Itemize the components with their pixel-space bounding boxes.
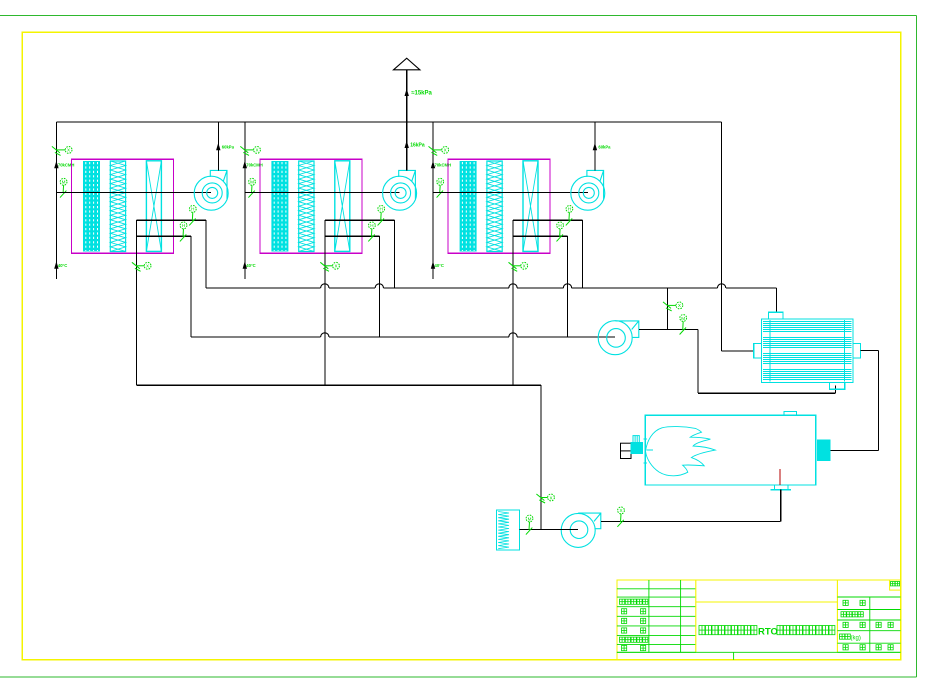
svg-text:M: M	[681, 316, 685, 321]
wire unit 2 lower-right drop to manifold B	[378, 236, 380, 337]
unit 3 pre-filter element	[460, 161, 477, 252]
burner centerline tick	[646, 449, 652, 451]
label 质量	[840, 634, 851, 639]
title block label 审定 (char2)	[641, 609, 646, 614]
title block label 校对 (char1)	[622, 628, 627, 633]
label 比例 char1	[843, 600, 848, 605]
damper flag instrument on unit 1 inlet	[52, 146, 72, 155]
vent stack rain cap	[394, 58, 420, 70]
title block label 设计 (char1)	[622, 646, 627, 651]
svg-text:X: X	[523, 264, 526, 269]
title block label 审核 (char1)	[622, 618, 627, 623]
unit 2 concentrator rotor element	[335, 161, 350, 252]
title block label 校对 (char2)	[641, 628, 646, 633]
wire unit 1 left drop	[135, 220, 137, 385]
wire unit 3 rotor desorb lower line	[513, 235, 568, 237]
heat exchanger top stub	[769, 312, 784, 319]
instrument X on manifold A tap	[663, 302, 683, 311]
wire unit 3 left drop	[512, 220, 514, 385]
intake filter body	[497, 510, 520, 550]
heat exchanger right nozzle	[853, 343, 861, 358]
fan F3 (unit 3 exhaust fan)	[571, 170, 605, 210]
label 张数 char2	[888, 622, 893, 627]
wire unit 3 upper-right drop to manifold A	[582, 220, 584, 288]
RTO thermocouple (red)	[779, 469, 781, 485]
instrument M on unit 2 inlet	[248, 178, 255, 197]
fan F2 (unit 2 exhaust fan)	[383, 170, 417, 210]
wire HX right nozzle line	[860, 349, 878, 351]
label 共张 char2	[860, 645, 865, 650]
svg-text:M: M	[250, 180, 254, 185]
svg-text:X: X	[549, 495, 552, 500]
wire intake filter to fan F5	[520, 528, 579, 530]
RTO right outlet cap	[818, 440, 830, 460]
svg-text:X: X	[67, 148, 70, 153]
wire unit 3 inlet drop from header	[432, 122, 434, 279]
unit 2 pre-filter element	[271, 161, 288, 252]
wire manifold A (desorption air to heat exchanger)	[206, 284, 776, 288]
svg-text:60kPa: 60kPa	[598, 144, 611, 149]
svg-text:H: H	[370, 223, 373, 228]
svg-text:(kg): (kg)	[851, 636, 861, 642]
label 第张 char2	[888, 645, 893, 650]
label 第张 char1	[876, 645, 881, 650]
unit 1 filter housing (magenta box)	[72, 159, 174, 253]
wire unit 2 inlet drop from header	[244, 122, 246, 279]
wire fan F4 outlet line	[639, 328, 698, 330]
title block label 审定 (char1)	[622, 609, 627, 614]
burner flame	[646, 427, 716, 476]
wire unit 2 upper-right drop to manifold A	[393, 220, 395, 288]
wire unit 2 rotor desorb lower line	[325, 235, 380, 237]
wire unit 2 rotor desorb upper line	[325, 219, 395, 221]
RTO bottom stub	[774, 485, 788, 489]
svg-text:X: X	[619, 508, 622, 513]
wire unit 1 lower-right drop to manifold B	[190, 236, 192, 337]
instrument X on F5 outlet	[617, 507, 624, 527]
label 比例 char2	[860, 600, 865, 605]
wire fan F5 outlet line	[601, 521, 781, 523]
svg-text:40°C: 40°C	[58, 263, 67, 268]
RTO bottom stub flange	[771, 489, 792, 491]
burner body block	[621, 443, 632, 458]
wire HX-RTO vertical	[877, 350, 879, 450]
svg-text:60kPa: 60kPa	[222, 144, 235, 149]
svg-text:M: M	[528, 516, 532, 521]
wire header drop to HX left	[721, 122, 723, 351]
flow arrow unit 2 inlet lower	[243, 261, 247, 269]
damper flag instrument on unit 3 left drop	[509, 262, 528, 271]
svg-text:H: H	[568, 207, 571, 212]
unit 2 filter housing (magenta box)	[260, 159, 362, 253]
unit 1 concentrator rotor element	[146, 161, 161, 252]
heat exchanger bottom stub	[830, 383, 845, 390]
fan F1 (unit 1 exhaust fan)	[194, 170, 228, 210]
instrument H on unit 2 upper line	[378, 206, 385, 226]
wire unit 1 inlet drop from header	[55, 122, 57, 279]
label 阶段 char1	[843, 622, 848, 627]
wire HX bottom stub riser	[835, 386, 837, 394]
wire unit 3 rotor desorb upper line	[513, 219, 583, 221]
flow arrow on fan F1 riser	[216, 143, 220, 151]
drawing title text part1	[699, 626, 757, 635]
wire unit 1 rotor desorb upper line	[136, 219, 206, 221]
label 阶段 char2	[860, 622, 865, 627]
burner wall tick upper	[643, 438, 647, 440]
flow arrow unit 1 inlet lower	[54, 261, 58, 269]
wire RTO bottom drop	[780, 490, 782, 522]
unit 2 bag-filter zigzag element	[299, 161, 314, 252]
damper flag instrument on unit 3 inlet	[429, 146, 449, 155]
flow arrow unit 2 inlet upper	[243, 161, 247, 169]
unit 1 pre-filter element	[83, 161, 100, 252]
wire manifold A drop to HX top	[775, 288, 777, 312]
unit 1 bag-filter zigzag element	[110, 161, 125, 252]
title block table	[617, 580, 901, 660]
svg-text:40°C: 40°C	[246, 263, 255, 268]
heat exchanger tube sheet left	[769, 320, 771, 382]
svg-text:X: X	[334, 264, 337, 269]
wire bottom collect line	[136, 384, 541, 386]
drawing title text part2	[777, 626, 835, 635]
svg-text:≈15kPa: ≈15kPa	[411, 91, 432, 97]
flow arrow on stack below header	[405, 141, 409, 149]
instrument H on unit 1 upper line	[189, 206, 196, 226]
wire manifold A tap down to F4 outlet	[667, 288, 669, 329]
damper flag instrument on unit 2 left drop	[320, 262, 339, 271]
wire F4 outlet drop	[697, 329, 699, 393]
wire unit 1 rotor desorb lower line	[136, 235, 191, 237]
burner nozzle (cyan)	[631, 443, 642, 454]
heat exchanger left nozzle	[754, 343, 762, 358]
svg-text:RTO: RTO	[758, 626, 778, 637]
title block label 设计 (char2)	[641, 646, 646, 651]
burner wall tick lower	[643, 462, 647, 464]
flow arrow unit 3 inlet lower	[431, 261, 435, 269]
flow arrow unit 3 inlet upper	[431, 161, 435, 169]
burner pilot assembly	[633, 436, 639, 443]
svg-text:X: X	[146, 264, 149, 269]
flow arrow on fan F3 riser	[593, 143, 597, 151]
wire unit 1 upper-right drop to manifold A	[205, 220, 207, 288]
wire F4 outlet run to HX bottom	[698, 392, 836, 394]
instrument M on F5 inlet	[526, 515, 533, 535]
svg-text:H: H	[191, 207, 194, 212]
svg-text:M: M	[438, 180, 442, 185]
wire fan F1 outlet riser	[217, 122, 219, 170]
wire unit 3 process line to fan	[433, 191, 588, 193]
heat exchanger HX body	[761, 319, 853, 383]
label 版次	[891, 582, 900, 586]
title block label 设计制图人	[620, 637, 648, 642]
label 张数 char1	[876, 622, 881, 627]
wire fan F3 outlet riser	[594, 122, 596, 170]
wire fan F2 outlet riser to stack	[406, 122, 408, 170]
unit 3 concentrator rotor element	[523, 161, 538, 252]
fan F4 (desorption fan)	[598, 321, 639, 355]
instrument H on unit 3 lower line	[557, 222, 564, 241]
instrument M on F4 outlet	[680, 315, 687, 335]
flow arrow on stack above header	[405, 89, 409, 97]
instrument H on unit 3 upper line	[566, 206, 573, 226]
unit 3 filter housing (magenta box)	[448, 159, 550, 253]
wire RTO outlet line	[830, 449, 879, 451]
svg-text:H: H	[558, 223, 561, 228]
svg-text:X: X	[255, 148, 258, 153]
wire unit 1 process line to fan	[56, 191, 211, 193]
instrument M on unit 1 inlet	[60, 178, 67, 197]
RTO combustion chamber body	[645, 415, 816, 485]
svg-text:X: X	[678, 303, 681, 308]
damper flag instrument on unit 1 left drop	[132, 262, 151, 271]
wire unit 2 process line to fan	[245, 191, 400, 193]
heat exchanger tube sheet right	[843, 320, 845, 382]
svg-text:H: H	[182, 223, 185, 228]
svg-text:M: M	[62, 180, 66, 185]
svg-text:H: H	[380, 207, 383, 212]
svg-text:40°C: 40°C	[435, 263, 444, 268]
title block label 主管工程师	[620, 599, 648, 604]
instrument X on bottom drop	[536, 494, 554, 503]
fan F5 (RTO combustion air fan)	[561, 513, 601, 547]
unit 3 bag-filter zigzag element	[487, 161, 502, 252]
RTO top stub	[784, 412, 796, 416]
wire manifold B (to RTO feed fan)	[191, 333, 615, 337]
wire stack riser	[406, 70, 408, 171]
svg-text:X: X	[444, 148, 447, 153]
heat exchanger tube bundle	[763, 322, 852, 380]
instrument H on unit 1 lower line	[180, 222, 187, 241]
svg-text:16kPa: 16kPa	[410, 142, 425, 148]
title block label 审核 (char2)	[641, 618, 646, 623]
label 共张 char1	[843, 645, 848, 650]
label 图样标记	[841, 612, 863, 617]
wire unit 3 lower-right drop to manifold B	[567, 236, 569, 337]
damper flag instrument on unit 2 inlet	[240, 146, 260, 155]
instrument M on unit 3 inlet	[437, 178, 444, 197]
wire main exhaust header	[56, 121, 721, 123]
intake filter media zigzag	[498, 512, 509, 549]
instrument H on unit 2 lower line	[368, 222, 375, 241]
wire HX left connect	[722, 350, 754, 352]
wire bottom line drop to fan inlet	[540, 385, 542, 529]
wire unit 2 left drop	[324, 220, 326, 385]
flow arrow unit 1 inlet upper	[54, 161, 58, 169]
